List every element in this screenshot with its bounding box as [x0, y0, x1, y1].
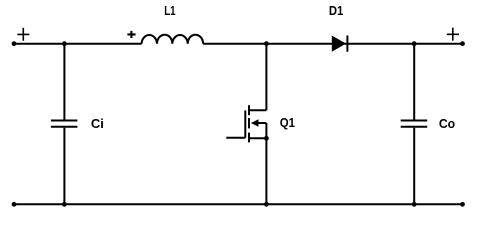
svg-text:Q1: Q1 — [280, 115, 295, 130]
svg-text:D1: D1 — [329, 3, 344, 18]
svg-text:Ci: Ci — [91, 116, 104, 131]
svg-text:Co: Co — [439, 116, 455, 131]
svg-text:L1: L1 — [164, 3, 175, 18]
